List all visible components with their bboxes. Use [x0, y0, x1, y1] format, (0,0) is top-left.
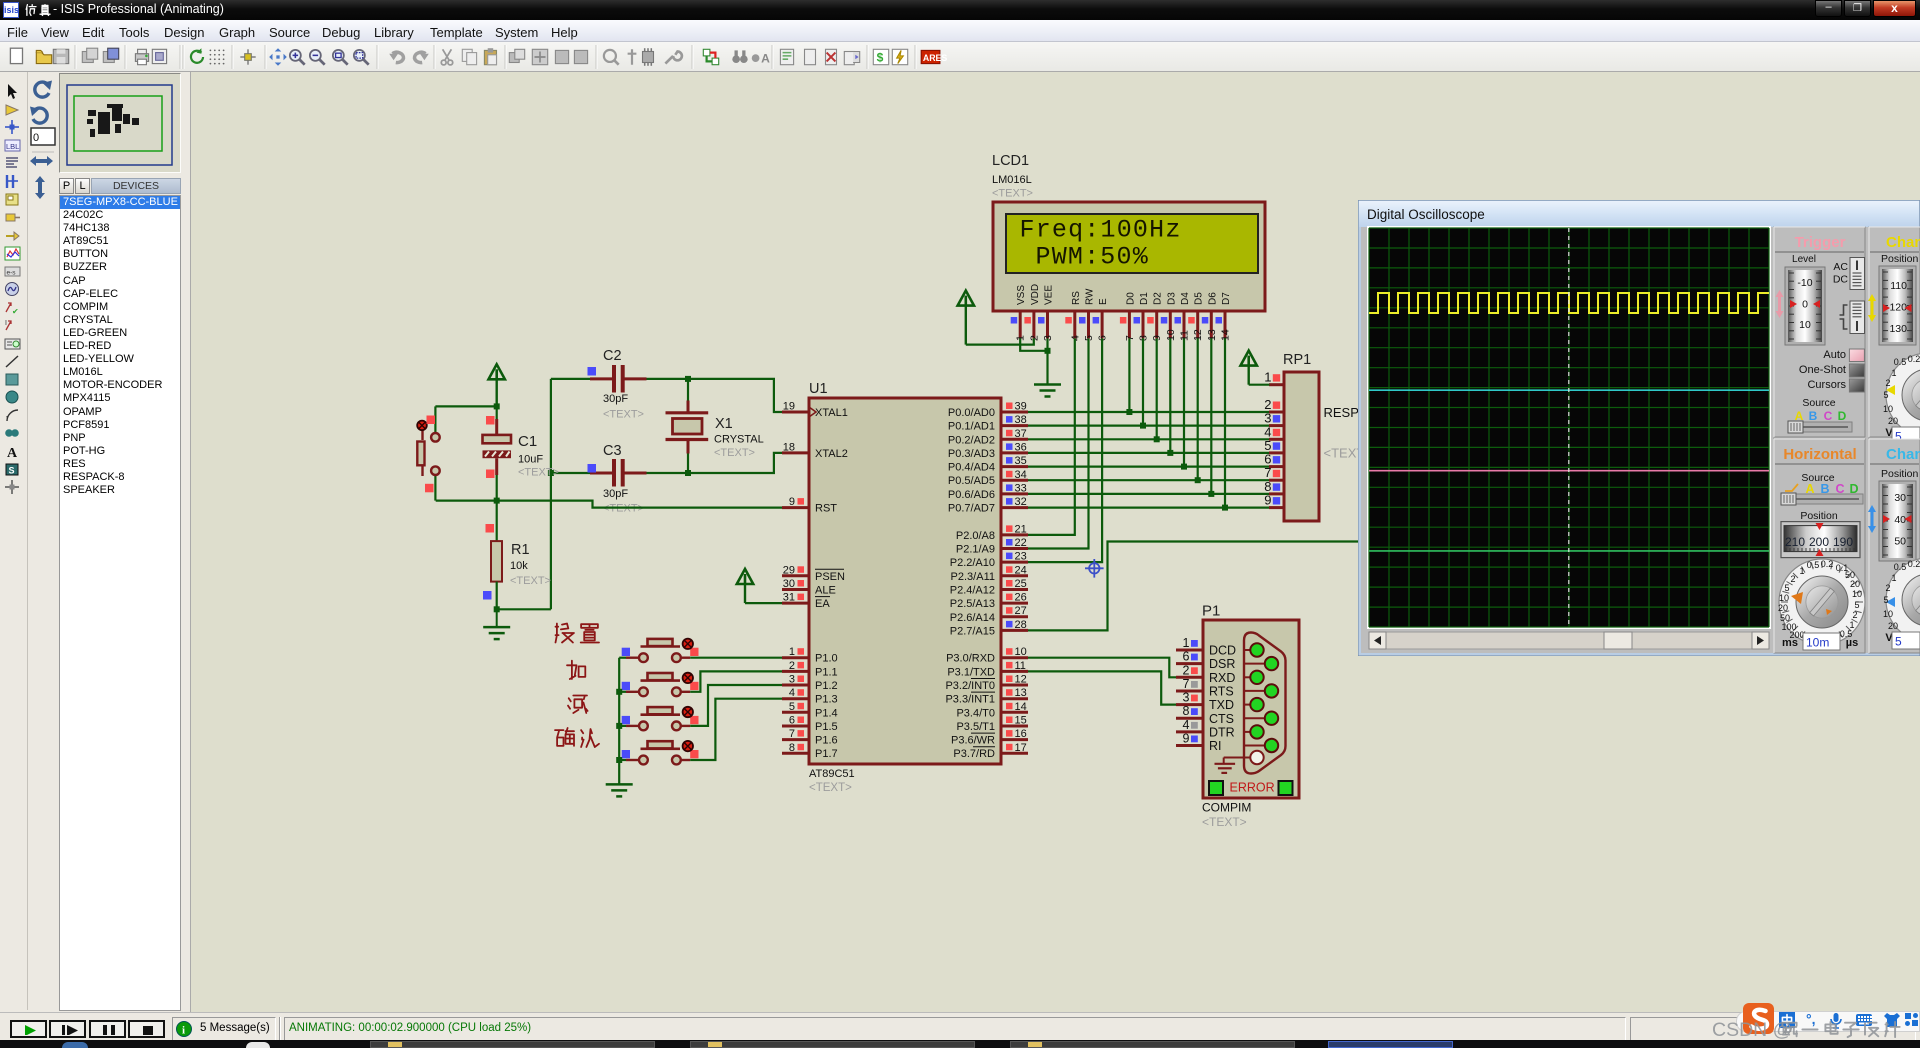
svg-text:µs: µs: [1846, 637, 1858, 649]
svg-text:210: 210: [1785, 535, 1805, 549]
svg-text:20: 20: [1850, 579, 1860, 589]
svg-text:7: 7: [1183, 677, 1190, 691]
svg-text:10: 10: [1883, 404, 1893, 414]
svg-text:9: 9: [1264, 493, 1271, 508]
ground reset: [483, 609, 510, 639]
svg-text:D4: D4: [1180, 292, 1191, 305]
svg-text:RP1: RP1: [1283, 352, 1311, 368]
svg-text:P2.5/A13: P2.5/A13: [950, 598, 995, 610]
svg-text:P3.5/T1: P3.5/T1: [956, 721, 995, 733]
svg-text:1: 1: [1799, 566, 1804, 576]
svg-text:TXD: TXD: [1209, 698, 1234, 712]
svg-text:19: 19: [783, 401, 795, 413]
svg-text:2: 2: [1885, 378, 1890, 388]
svg-text:P1.2: P1.2: [815, 680, 838, 692]
svg-text:0.5: 0.5: [1894, 357, 1907, 367]
svg-text:23: 23: [1015, 551, 1027, 563]
svg-text:9: 9: [789, 496, 795, 508]
svg-text:D5: D5: [1194, 292, 1205, 305]
svg-text:14: 14: [1015, 701, 1027, 713]
svg-text:RW: RW: [1085, 288, 1096, 305]
svg-text:18: 18: [783, 441, 795, 453]
svg-text:17: 17: [1015, 742, 1027, 754]
wire caps common: [497, 379, 554, 609]
svg-text:21: 21: [1015, 523, 1027, 535]
node origin marker: [1085, 559, 1104, 578]
power VCC for RP1: [1241, 351, 1270, 385]
svg-text:XTAL2: XTAL2: [815, 448, 848, 460]
button reset: [417, 406, 440, 500]
svg-text:33: 33: [1015, 482, 1027, 494]
svg-text:A: A: [7, 446, 18, 461]
svg-text:CRYSTAL: CRYSTAL: [714, 434, 764, 446]
capacitor C2 30pF: [551, 348, 688, 421]
svg-text:VSS: VSS: [1016, 285, 1027, 305]
svg-text:P3.2/INT0: P3.2/INT0: [945, 680, 995, 692]
svg-text:5: 5: [1854, 600, 1859, 610]
svg-text:<TEXT>: <TEXT>: [603, 409, 644, 421]
wire VDD: [966, 338, 1034, 344]
svg-text:RS: RS: [1071, 291, 1082, 305]
power VCC reset: [489, 364, 505, 406]
svg-text:P1.1: P1.1: [815, 666, 838, 678]
svg-text:VEE: VEE: [1044, 285, 1055, 305]
svg-text:P2.1/A9: P2.1/A9: [956, 544, 995, 556]
svg-text:2: 2: [1183, 663, 1190, 677]
svg-text:PSEN: PSEN: [815, 571, 845, 583]
svg-text:B: B: [1809, 409, 1818, 423]
svg-text:LBL: LBL: [6, 142, 19, 151]
svg-text:P3.7/RD: P3.7/RD: [953, 748, 995, 760]
svg-text:35: 35: [1015, 455, 1027, 467]
wire E: [1028, 338, 1102, 562]
svg-text:P3.1/TXD: P3.1/TXD: [947, 666, 995, 678]
svg-text:P1.0: P1.0: [815, 653, 838, 665]
svg-text:28: 28: [1015, 619, 1027, 631]
button 加: [619, 673, 698, 696]
svg-text:P1: P1: [1202, 603, 1220, 620]
svg-text:Freq:100Hz: Freq:100Hz: [1020, 216, 1182, 245]
svg-text:25: 25: [1015, 578, 1027, 590]
svg-text:200: 200: [1809, 535, 1829, 549]
svg-text:Position: Position: [1881, 253, 1919, 265]
wire button 1 to P1.0: [690, 657, 782, 659]
svg-text:10: 10: [1779, 593, 1789, 603]
svg-text:-10: -10: [1797, 277, 1812, 289]
svg-text:XTAL1: XTAL1: [815, 407, 848, 419]
svg-text:C: C: [1824, 409, 1833, 423]
svg-text:<TEXT>: <TEXT>: [510, 575, 551, 587]
svg-text:P1.4: P1.4: [815, 707, 838, 719]
svg-text:0: 0: [33, 132, 39, 144]
svg-text:RXD: RXD: [1209, 671, 1235, 685]
resistor pack RP1 RESPACK-8: [1264, 352, 1396, 521]
svg-text:D6: D6: [1207, 292, 1218, 305]
svg-text:2: 2: [789, 660, 795, 672]
svg-text:RI: RI: [1209, 739, 1222, 753]
svg-text:AT89C51: AT89C51: [809, 768, 855, 780]
connector P1 COMPIM: [1176, 603, 1299, 830]
svg-text:9: 9: [1183, 732, 1190, 746]
svg-text:LCD1: LCD1: [992, 153, 1029, 169]
svg-text:10k: 10k: [510, 560, 528, 572]
svg-text:10m: 10m: [1806, 636, 1829, 650]
svg-text:C3: C3: [603, 443, 622, 459]
svg-text:EA: EA: [815, 598, 830, 610]
svg-text:P0.2/AD2: P0.2/AD2: [948, 434, 995, 446]
svg-text:P3.6/WR: P3.6/WR: [951, 735, 995, 747]
svg-text:0.2: 0.2: [1908, 354, 1920, 364]
svg-text:P1.7: P1.7: [815, 748, 838, 760]
svg-text:15: 15: [1015, 715, 1027, 727]
svg-text:10: 10: [1852, 589, 1862, 599]
svg-text:D0: D0: [1125, 292, 1136, 305]
svg-text:D: D: [1838, 409, 1847, 423]
svg-text:4: 4: [1183, 718, 1190, 732]
svg-text:Source: Source: [1802, 397, 1835, 409]
capacitor C1 10uF: [483, 416, 559, 501]
svg-text:34: 34: [1015, 469, 1027, 481]
power VCC for LCD VDD: [958, 291, 974, 345]
svg-text:0.2: 0.2: [1821, 559, 1834, 569]
svg-text:A: A: [761, 52, 770, 66]
wire RS: [1028, 338, 1075, 535]
svg-text:30: 30: [783, 578, 795, 590]
ground buttons: [606, 784, 633, 796]
svg-text:P0.6/AD6: P0.6/AD6: [948, 489, 995, 501]
svg-text:120: 120: [1889, 302, 1907, 314]
button 设置: [619, 639, 698, 663]
svg-text:DTR: DTR: [1209, 725, 1235, 739]
svg-text:ms: ms: [1782, 637, 1798, 649]
svg-text:D7: D7: [1221, 292, 1232, 305]
svg-text:P0.5/AD5: P0.5/AD5: [948, 475, 995, 487]
svg-text:3: 3: [789, 674, 795, 686]
svg-text:P2.6/A14: P2.6/A14: [950, 612, 995, 624]
svg-text:6: 6: [789, 715, 795, 727]
svg-text:130: 130: [1889, 323, 1907, 335]
wire VSS to VEE node: [1020, 338, 1050, 353]
svg-text:190: 190: [1833, 535, 1853, 549]
svg-text:30pF: 30pF: [603, 393, 628, 405]
wire P2.7 to oscilloscope: [1028, 542, 1368, 631]
svg-text:RTS: RTS: [1209, 685, 1234, 699]
svg-text:i: i: [182, 1025, 185, 1037]
svg-text:LM016L: LM016L: [992, 174, 1032, 186]
svg-text:16: 16: [1015, 728, 1027, 740]
svg-text:P3.0/RXD: P3.0/RXD: [946, 653, 995, 665]
svg-text:22: 22: [1015, 537, 1027, 549]
svg-text:<TEXT>: <TEXT>: [992, 188, 1033, 200]
svg-text:5: 5: [789, 701, 795, 713]
wires P0 bus rows to RP1: [1028, 412, 1270, 508]
svg-text:1: 1: [1891, 573, 1896, 583]
svg-text:13: 13: [1015, 687, 1027, 699]
svg-text:e-s: e-s: [7, 270, 17, 277]
svg-text:PWM:50%: PWM:50%: [1036, 243, 1149, 272]
svg-text:50: 50: [1894, 536, 1906, 548]
svg-text:ARES: ARES: [923, 53, 948, 63]
svg-text:5: 5: [1895, 635, 1902, 649]
svg-text:Position: Position: [1881, 468, 1919, 480]
svg-text:Digital Oscilloscope: Digital Oscilloscope: [1367, 207, 1485, 222]
wire XTAL1: [688, 379, 782, 412]
svg-text:40: 40: [1894, 514, 1906, 526]
svg-text:COMPIM: COMPIM: [1202, 801, 1251, 815]
wire button bus: [616, 658, 622, 785]
svg-text:X1: X1: [715, 416, 733, 432]
svg-text:P3.4/T0: P3.4/T0: [956, 707, 995, 719]
crystal X1: [666, 376, 764, 476]
svg-text:2: 2: [1790, 574, 1795, 584]
ground for LCD: [1034, 338, 1061, 396]
svg-text:27: 27: [1015, 605, 1027, 617]
svg-text:Auto: Auto: [1823, 349, 1846, 361]
svg-text:5: 5: [1883, 390, 1888, 400]
svg-text:ERROR: ERROR: [1230, 781, 1275, 795]
svg-text:36: 36: [1015, 441, 1027, 453]
button 减: [619, 707, 698, 731]
LCD1 LM016L display: [992, 153, 1265, 341]
svg-text:Trigger: Trigger: [1795, 234, 1846, 251]
svg-text:<TEXT>: <TEXT>: [1202, 815, 1247, 829]
svg-text:1: 1: [789, 646, 795, 658]
svg-text:VDD: VDD: [1030, 284, 1041, 305]
svg-text:10: 10: [1799, 319, 1811, 331]
wire reset top node: [435, 403, 499, 419]
svg-text:5: 5: [1883, 595, 1888, 605]
svg-text:Cursors: Cursors: [1807, 379, 1846, 391]
wire RST row: [436, 498, 782, 508]
wire button 4 to P1.3: [690, 699, 782, 760]
svg-text:P0.1/AD1: P0.1/AD1: [948, 421, 995, 433]
svg-text:11: 11: [1015, 660, 1026, 672]
svg-text:C1: C1: [518, 433, 537, 450]
svg-text:P0.3/AD3: P0.3/AD3: [948, 448, 995, 460]
svg-text:$: $: [877, 50, 884, 64]
svg-text:I: I: [5, 320, 7, 327]
svg-text:5: 5: [1784, 583, 1789, 593]
svg-text:DC: DC: [1833, 274, 1849, 286]
svg-text:One-Shot: One-Shot: [1799, 364, 1846, 376]
svg-text:39: 39: [1015, 401, 1027, 413]
svg-text:R1: R1: [511, 542, 530, 558]
svg-text:<TEXT>: <TEXT>: [714, 447, 755, 459]
svg-text:24: 24: [1015, 564, 1027, 576]
svg-text:38: 38: [1015, 414, 1027, 426]
svg-text:D1: D1: [1139, 292, 1150, 305]
svg-text:20: 20: [1888, 416, 1898, 426]
wire button 3 to P1.2: [690, 685, 782, 726]
svg-text:P2.2/A10: P2.2/A10: [950, 557, 995, 569]
svg-text:32: 32: [1015, 496, 1027, 508]
svg-text:P2.0/A8: P2.0/A8: [956, 530, 995, 542]
svg-text:8: 8: [789, 742, 795, 754]
svg-text:P0.0/AD0: P0.0/AD0: [948, 407, 995, 419]
label confirm: [555, 728, 599, 747]
wire P3.0 RXD: [1028, 658, 1176, 678]
wire RW: [1028, 338, 1089, 548]
svg-text:P2.7/A15: P2.7/A15: [950, 625, 995, 637]
svg-text:D3: D3: [1166, 292, 1177, 305]
svg-text:0.5: 0.5: [1807, 560, 1820, 570]
svg-text:1: 1: [1264, 370, 1271, 385]
svg-text:Chann: Chann: [1886, 446, 1920, 463]
svg-text:P1.6: P1.6: [815, 735, 838, 747]
svg-text:0: 0: [1802, 299, 1808, 311]
svg-text:31: 31: [783, 592, 795, 604]
svg-text:30pF: 30pF: [603, 488, 628, 500]
svg-text:12: 12: [1015, 674, 1027, 686]
svg-text:ALE: ALE: [815, 585, 836, 597]
label minus: [568, 696, 588, 714]
svg-text:20: 20: [1888, 621, 1898, 631]
svg-text:<TEXT>: <TEXT>: [518, 467, 559, 479]
svg-text:10: 10: [1015, 646, 1027, 658]
svg-text:E: E: [1098, 298, 1109, 305]
svg-text:0.5: 0.5: [1894, 562, 1907, 572]
svg-text:RST: RST: [815, 503, 837, 515]
svg-text:P3.3/INT1: P3.3/INT1: [945, 694, 995, 706]
svg-text:DSR: DSR: [1209, 657, 1235, 671]
svg-text:3: 3: [1183, 691, 1190, 705]
op-amp U1 AT89C51 microcontroller: [782, 381, 1028, 794]
svg-text:110: 110: [1890, 280, 1907, 292]
svg-text:U1: U1: [809, 381, 828, 397]
svg-text:P0.7/AD7: P0.7/AD7: [948, 503, 995, 515]
svg-text:7: 7: [789, 728, 795, 740]
svg-text:1: 1: [1891, 368, 1896, 378]
svg-text:20: 20: [1778, 603, 1788, 613]
svg-text:4: 4: [789, 687, 795, 699]
svg-text:C2: C2: [603, 348, 622, 364]
svg-text:P1.3: P1.3: [815, 694, 838, 706]
svg-text:6: 6: [1183, 650, 1190, 664]
svg-text:10uF: 10uF: [518, 454, 543, 466]
svg-text:DCD: DCD: [1209, 644, 1236, 658]
svg-text:2: 2: [1885, 583, 1890, 593]
resistor R1 10k: [483, 501, 551, 613]
label set: [556, 624, 600, 643]
svg-text:1: 1: [1183, 636, 1190, 650]
capacitor C3 30pF: [551, 443, 688, 515]
wire P3.1 TXD: [1028, 671, 1176, 704]
svg-text:Horizontal: Horizontal: [1783, 446, 1856, 463]
wire XTAL2: [688, 453, 782, 473]
svg-text:0.2: 0.2: [1908, 559, 1920, 569]
svg-text:✔: ✔: [12, 307, 19, 316]
svg-text:<TEXT>: <TEXT>: [809, 782, 852, 794]
svg-text:D2: D2: [1153, 292, 1164, 305]
svg-text:Level: Level: [1792, 254, 1816, 265]
svg-text:P0.4/AD4: P0.4/AD4: [948, 462, 995, 474]
svg-text:26: 26: [1015, 592, 1027, 604]
svg-text:S: S: [9, 466, 15, 476]
button 确认: [619, 741, 698, 765]
svg-text:29: 29: [783, 564, 795, 576]
svg-text:37: 37: [1015, 428, 1027, 440]
svg-text:Position: Position: [1800, 510, 1838, 522]
label plus: [567, 661, 585, 679]
wires LCD data D0-D7: [1126, 338, 1228, 510]
svg-text:CTS: CTS: [1209, 712, 1234, 726]
svg-text:P2.3/A11: P2.3/A11: [951, 571, 995, 583]
svg-text:P1.5: P1.5: [815, 721, 838, 733]
wire button 2 to P1.1: [690, 671, 782, 691]
svg-text:2: 2: [1852, 610, 1857, 620]
svg-text:Chann: Chann: [1886, 234, 1920, 251]
power VCC EA: [737, 569, 782, 603]
svg-text:8: 8: [1183, 704, 1190, 718]
svg-text:10: 10: [1883, 609, 1893, 619]
svg-text:P2.4/A12: P2.4/A12: [950, 585, 995, 597]
svg-text:30: 30: [1894, 492, 1906, 504]
svg-text:AC: AC: [1833, 261, 1848, 273]
